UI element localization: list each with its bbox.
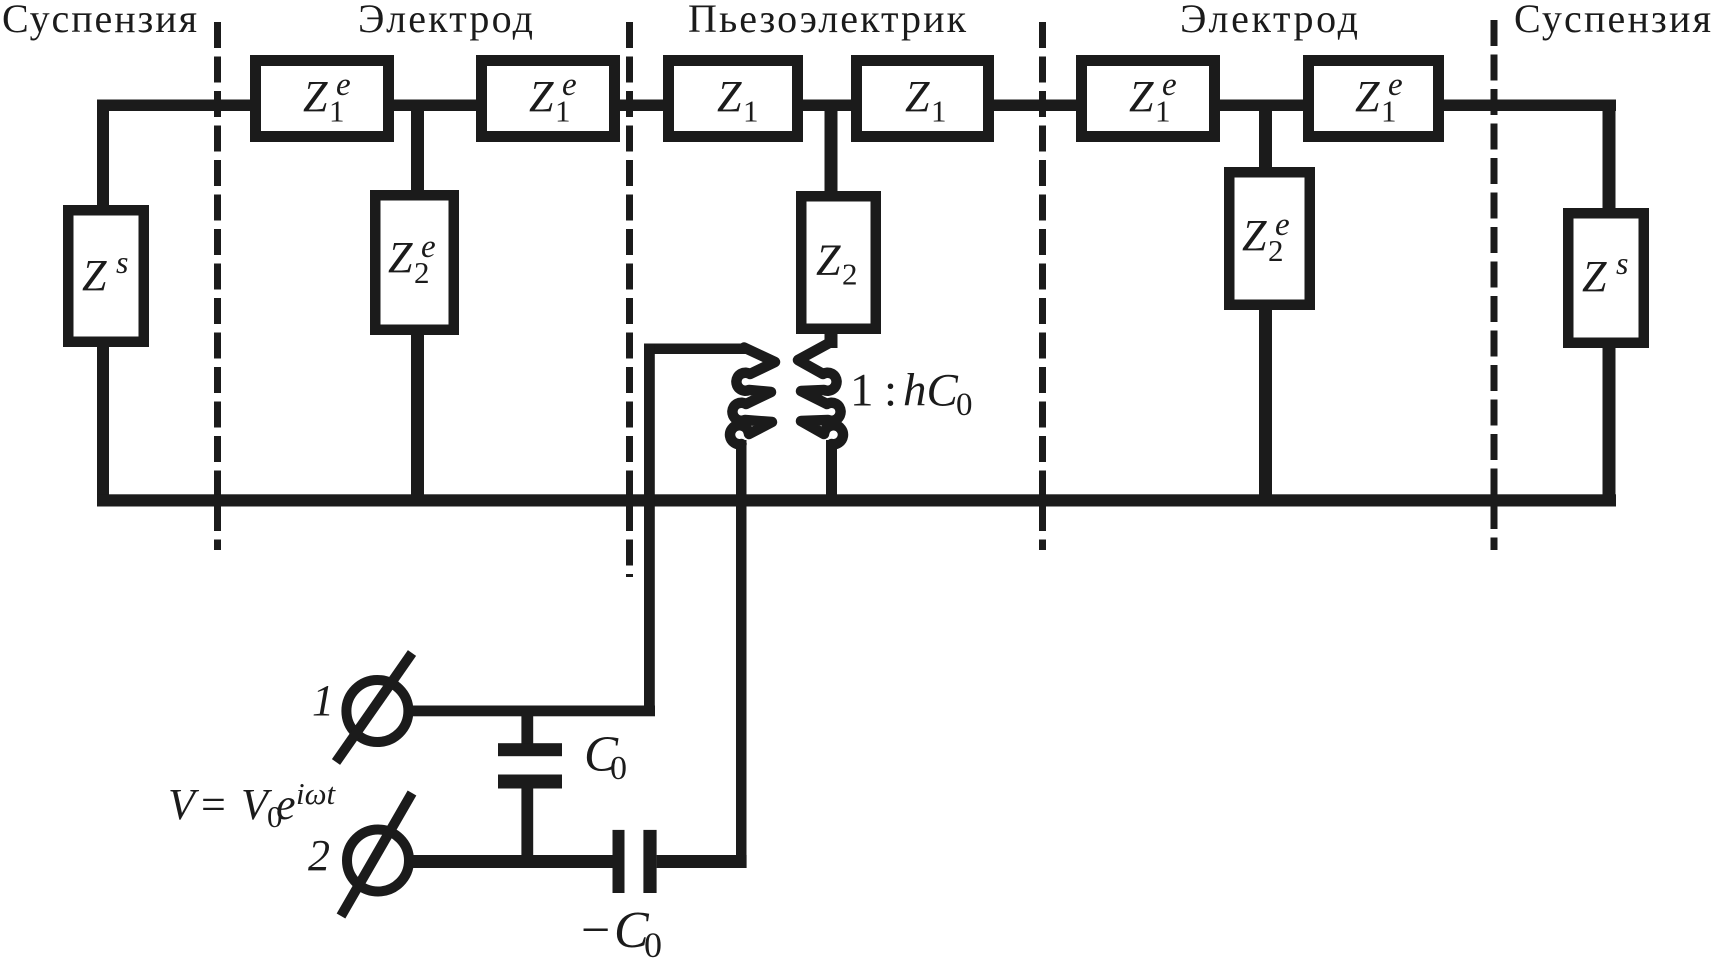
resistor box Z2e (left): [375, 195, 454, 330]
wire: top-right vertical drop to Zs: [1603, 100, 1616, 209]
terminal 2 slash: [341, 793, 412, 916]
svg-text:Z: Z: [905, 72, 930, 121]
wire: terminal 2 to -C0: [409, 855, 613, 868]
wire: stub between Z1 boxes down to Z2: [825, 105, 838, 192]
resistor box Zs (left): [68, 210, 144, 342]
wire: vertical line B (primary bottom down to -C0 wire): [736, 440, 747, 862]
wire: Zs right bottom drop to bus: [1603, 348, 1616, 506]
svg-text:e: e: [1388, 67, 1403, 103]
wire: bottom horizontal bus: [97, 494, 1616, 506]
svg-text:s: s: [1616, 245, 1628, 281]
svg-text:−: −: [581, 902, 610, 959]
wire: transformer primary top lead (horizontal): [644, 344, 746, 355]
svg-text::: :: [884, 365, 897, 417]
wire: secondary coil bottom to bus: [826, 440, 837, 500]
resistor box Z1e #2: [482, 61, 615, 137]
svg-text:0: 0: [644, 925, 662, 963]
transformer secondary coil (right): [798, 342, 843, 444]
wire: Zs left bottom drop to bus: [97, 347, 109, 506]
transformer ratio label 1 : hC0: [850, 365, 973, 424]
svg-text:Z: Z: [1355, 72, 1380, 121]
svg-text:hC: hC: [903, 365, 959, 417]
capacitor C0 bottom stub: [521, 789, 533, 862]
wire: top-left vertical drop to Zs: [97, 100, 109, 206]
svg-text:Z: Z: [816, 236, 841, 285]
wire: vertical line A (primary top to terminal 1 wire): [644, 344, 655, 717]
svg-text:e: e: [421, 229, 436, 265]
transformer primary coil (left): [730, 348, 775, 445]
dashed boundary line 3 (piezoelectric/electrode right): [1039, 22, 1046, 550]
label C0: [584, 727, 627, 787]
voltage source formula V = V0 e^iwt: [168, 776, 337, 834]
svg-text:e: e: [562, 67, 577, 103]
capacitor C0 bottom plate: [498, 775, 562, 789]
svg-text:Z: Z: [717, 72, 742, 121]
resistor box Zs (right): [1568, 213, 1644, 343]
svg-text:Суспензия: Суспензия: [2, 0, 197, 41]
svg-text:iωt: iωt: [296, 776, 337, 811]
svg-text:1: 1: [931, 94, 947, 129]
resistor box Z2 (piezo): [801, 196, 876, 329]
svg-text:s: s: [116, 244, 128, 280]
svg-text:Z: Z: [303, 72, 328, 121]
wire: stub below Z2e left to bus: [411, 334, 424, 500]
svg-text:Z: Z: [388, 233, 413, 282]
svg-text:1: 1: [850, 365, 874, 417]
resistor box Z1e #4: [1309, 61, 1439, 137]
wire: Z2 bottom stub to secondary coil: [825, 328, 838, 348]
svg-text:Z: Z: [82, 251, 107, 300]
wire: -C0 right plate to line B: [657, 855, 747, 868]
svg-text:1: 1: [312, 676, 334, 725]
svg-text:2: 2: [308, 831, 330, 880]
svg-text:Z: Z: [1242, 211, 1267, 260]
label -C0: [581, 902, 662, 963]
svg-text:=: =: [201, 780, 226, 829]
wire: stub below Z2e right to bus: [1259, 309, 1272, 500]
capacitor -C0 right plate: [643, 830, 656, 893]
svg-text:2: 2: [842, 257, 858, 292]
capacitor -C0 left plate: [613, 830, 625, 893]
wire: stub between Z1e boxes down to Z2e (left): [411, 105, 424, 191]
svg-text:1: 1: [743, 94, 759, 129]
dashed boundary line 2 (electrode/piezoelectric left): [626, 22, 633, 577]
dashed boundary line 1 (suspension/electrode left): [214, 22, 221, 550]
terminal 1 circle: [346, 680, 408, 742]
wire: terminal 1 to line A: [408, 706, 655, 717]
svg-text:Пьезоэлектрик: Пьезоэлектрик: [688, 0, 967, 41]
terminal 2 circle: [347, 830, 409, 892]
resistor box Z2e (right): [1229, 172, 1310, 305]
capacitor C0 top plate: [498, 743, 562, 756]
capacitor C0 top stub: [521, 711, 533, 744]
svg-text:e: e: [336, 67, 351, 103]
svg-text:Z: Z: [1582, 252, 1607, 301]
terminal 1 slash: [336, 653, 412, 762]
wire: top horizontal rail: [97, 100, 1616, 112]
svg-text:Суспензия: Суспензия: [1514, 0, 1711, 41]
svg-text:e: e: [276, 780, 296, 829]
svg-text:0: 0: [610, 750, 627, 787]
svg-text:Z: Z: [529, 72, 554, 121]
svg-text:e: e: [1162, 67, 1177, 103]
dashed boundary line 4 (electrode/suspension right): [1491, 20, 1498, 550]
svg-text:Z: Z: [1129, 72, 1154, 121]
resistor box Z1e #3: [1082, 61, 1215, 137]
resistor box Z1 #2: [857, 61, 989, 137]
svg-text:0: 0: [956, 387, 973, 423]
wire: stub between Z1e boxes down to Z2e (right): [1259, 105, 1272, 168]
resistor box Z1 #1: [669, 61, 798, 137]
resistor box Z1e #1: [256, 61, 389, 137]
svg-text:e: e: [1275, 207, 1290, 243]
